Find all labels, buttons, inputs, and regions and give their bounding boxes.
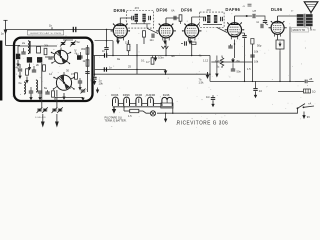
- svg-text:10k: 10k: [254, 50, 259, 54]
- bold arrow at jog: [206, 72, 210, 79]
- wire gang A to B: [45, 56, 54, 58]
- current arrow under V2: [163, 39, 167, 45]
- svg-text:+B: +B: [309, 77, 313, 81]
- cap 1ohm on feed: [206, 95, 215, 107]
- wire V5 anode to transformer: [278, 15, 297, 17]
- label 45 + caps: [243, 4, 252, 8]
- svg-text:DL96: DL96: [163, 93, 170, 97]
- wire V1 anode to IF1: [120, 18, 131, 24]
- trimmer T-dial2 below box: [52, 101, 63, 113]
- cap C-b1: [29, 87, 33, 101]
- current arrow 0,3: [154, 56, 164, 62]
- main bus: [95, 73, 211, 75]
- resistor above V2-V3: [179, 15, 182, 24]
- trimmer T-dial1 below box: [37, 101, 48, 113]
- svg-text:0,3m: 0,3m: [158, 56, 164, 60]
- current arrow at screen end: [164, 70, 168, 75]
- cap C-pad2: [32, 66, 36, 72]
- diode block D1: [16, 54, 20, 60]
- wire junction dots: [94, 55, 291, 114]
- screen line: [95, 69, 166, 71]
- cap C-col right: [85, 72, 89, 74]
- tube V3 DF96: [182, 17, 202, 40]
- resistor R-osc: [44, 44, 49, 55]
- svg-text:DK96: DK96: [114, 8, 126, 13]
- wire V4 down: [234, 40, 236, 59]
- B+ connector: [295, 77, 314, 83]
- note text PILOT: [105, 116, 127, 123]
- wire IF1 to V2: [147, 24, 158, 34]
- trimmer CT2: [70, 40, 80, 47]
- wire box right edge to grid line: [94, 56, 96, 75]
- wire pot down: [279, 49, 281, 81]
- resistor R-lamp: [124, 107, 150, 118]
- svg-text:20k: 20k: [44, 44, 49, 48]
- svg-text:10k: 10k: [99, 82, 104, 86]
- resistor R-extra2: [52, 91, 55, 97]
- output transformer T1: [297, 14, 313, 27]
- cap C-V4b: [228, 43, 235, 48]
- svg-text:11k: 11k: [125, 41, 130, 45]
- vertical to ground mid right: [215, 56, 218, 78]
- wire V2 down: [165, 41, 167, 56]
- svg-text:10k: 10k: [254, 60, 259, 64]
- cap 10 on B line: [253, 81, 262, 98]
- svg-text:1Ω: 1Ω: [206, 95, 209, 99]
- tube V1 DK96: [111, 23, 131, 40]
- svg-text:11n: 11n: [150, 38, 155, 42]
- tuner box GRUPPO AT S 2505: [14, 38, 93, 101]
- resistor R-col right 2: [83, 59, 89, 66]
- wire diode load: [211, 61, 252, 63]
- wire V1 down to bus: [112, 41, 114, 56]
- socket f2: [123, 93, 130, 106]
- coil L1: [22, 41, 30, 54]
- svg-text:0,47: 0,47: [73, 48, 77, 54]
- tube V4 DAF96: [225, 16, 245, 39]
- wire V4 anode right: [235, 16, 266, 20]
- cap above V2-V3: [174, 16, 176, 20]
- svg-text:DF96: DF96: [181, 7, 193, 12]
- coil L3: [19, 81, 26, 94]
- ground T-dial1: [41, 114, 45, 128]
- svg-text:9V: 9V: [307, 115, 310, 119]
- socket f1: [111, 93, 118, 106]
- cap on screen line: [104, 66, 112, 72]
- wire B+ transformer down right: [310, 27, 312, 30]
- resistor R-mid-box: [71, 72, 77, 79]
- label transformer: [292, 27, 317, 32]
- cap 10n under V3: [181, 41, 186, 45]
- wire transformer down: [289, 27, 291, 82]
- wire bottom inside 2: [56, 90, 58, 101]
- wire right column: [87, 45, 89, 92]
- wire trimmer link: [63, 39, 73, 41]
- capacitor C-ant: [73, 27, 76, 32]
- cap C-extra1: [45, 90, 49, 94]
- filament sockets row: [111, 93, 173, 114]
- svg-text:DF96: DF96: [135, 93, 142, 97]
- svg-text:DAF96: DAF96: [225, 7, 240, 12]
- svg-text:tA: tA: [257, 20, 260, 24]
- svg-text:1.12: 1.12: [203, 59, 209, 63]
- wire antenna top bus: [6, 29, 114, 31]
- resistor R-a: [37, 47, 41, 54]
- label 7b 1.5k: [199, 78, 205, 85]
- pot symbol W: [162, 46, 169, 49]
- label GRUPPO AT S 2505: [28, 30, 64, 35]
- cap on x252: [250, 55, 254, 57]
- wire bottom inside: [41, 63, 43, 101]
- bus jog down: [210, 56, 295, 82]
- scan page edge bar: [0, 41, 2, 101]
- current arrow 8A: [231, 58, 240, 63]
- filament links: [118, 103, 162, 105]
- socket f3: [135, 93, 142, 106]
- wire antenna into box: [6, 44, 21, 46]
- IF transformer 1: [127, 6, 154, 28]
- cap C-col right2: [76, 52, 83, 58]
- series cap on grid line: [102, 49, 107, 58]
- ground mid feed: [164, 113, 167, 122]
- svg-text:0.1: 0.1: [141, 59, 145, 63]
- ground arrow to frame: [81, 97, 84, 101]
- svg-text:472: 472: [135, 6, 140, 10]
- switch S1: [297, 101, 314, 109]
- battery B: [278, 89, 315, 94]
- wire osc row: [18, 45, 57, 47]
- battery A minus arrow: [302, 112, 310, 120]
- resistor R47k under V2: [146, 56, 154, 65]
- svg-text:472: 472: [207, 8, 212, 12]
- cathode arrow V1: [116, 38, 120, 44]
- cap 11n: [150, 34, 155, 43]
- svg-text:47k: 47k: [71, 72, 76, 76]
- wire D1: [17, 46, 19, 54]
- block right column: [77, 55, 81, 60]
- svg-text:4.7: 4.7: [146, 60, 150, 64]
- svg-text:8A: 8A: [237, 59, 240, 63]
- svg-text:TERM. E BATTER.: TERM. E BATTER.: [105, 118, 127, 122]
- filament feed wire: [157, 109, 298, 113]
- svg-text:50n: 50n: [237, 70, 242, 74]
- svg-text:1.5k: 1.5k: [199, 81, 205, 85]
- ground under bus: [96, 88, 99, 94]
- tube V2 DF96: [156, 18, 176, 40]
- ground T-dial2: [55, 114, 59, 128]
- svg-text:DAF96: DAF96: [146, 93, 155, 97]
- speaker LS: [304, 2, 318, 14]
- resistor R-pad: [25, 69, 28, 84]
- svg-text:+A: +A: [308, 101, 312, 105]
- grid line bus: [93, 55, 211, 57]
- wire IF2 to V4: [217, 28, 227, 33]
- labels 10k column: [254, 50, 259, 64]
- tube V5 DL96: [268, 16, 286, 37]
- cap C-osc: [48, 57, 52, 59]
- resistor R between V1 V2: [143, 31, 146, 44]
- svg-text:GRUPPO AT S 2505: GRUPPO AT S 2505: [30, 32, 63, 35]
- svg-text:DK96: DK96: [111, 93, 118, 97]
- cap C-pad: [16, 64, 23, 79]
- pilot lamp: [150, 111, 155, 116]
- wire osc ground run: [55, 97, 83, 101]
- svg-text:Eb: Eb: [172, 54, 176, 58]
- wire x252.5 down: [252, 44, 254, 81]
- socket f5: [161, 93, 173, 108]
- resistor R h under V3: [192, 42, 197, 45]
- coil L1 core: [29, 41, 31, 54]
- svg-text:6A: 6A: [171, 8, 174, 12]
- volume pot box: [276, 40, 284, 49]
- resistor R-extra4: [43, 65, 46, 71]
- resistor R 11k: [125, 40, 130, 56]
- cap C-extra3: [78, 78, 82, 91]
- svg-text:DL96: DL96: [271, 7, 283, 12]
- svg-text:MOD 5 TR: MOD 5 TR: [293, 28, 305, 32]
- cap C-b2: [38, 91, 42, 100]
- cap 50n mid right: [231, 63, 242, 73]
- svg-text:1.5: 1.5: [128, 114, 132, 118]
- wire V3 down: [191, 41, 193, 56]
- cap HT: [246, 9, 257, 18]
- resistor box right of V4: [251, 39, 254, 45]
- svg-text:50p: 50p: [257, 44, 262, 48]
- wire x137 down: [136, 44, 138, 74]
- filament bus wire: [113, 106, 174, 108]
- trimmer CT1: [60, 41, 66, 47]
- wire box to V1: [95, 40, 114, 42]
- wire V2 anode up: [166, 18, 180, 22]
- block L3: [37, 57, 42, 63]
- svg-text:1Ω: 1Ω: [312, 90, 315, 94]
- ground D1: [16, 60, 19, 67]
- cap C-L1: [21, 48, 25, 54]
- svg-text:DF96: DF96: [156, 7, 168, 12]
- current arrow under V3: [188, 39, 192, 45]
- resistor R-col right: [81, 47, 89, 54]
- trimmer C-corner: [81, 89, 86, 94]
- socket f4: [146, 93, 155, 106]
- antenna: [1, 20, 8, 45]
- svg-text:DF96: DF96: [123, 93, 130, 97]
- wire V5 down to pot: [277, 34, 279, 40]
- svg-text:S.CAL 4-20: S.CAL 4-20: [35, 116, 47, 119]
- tuning gang section A: [51, 48, 71, 65]
- tuning gang section B: [53, 72, 75, 90]
- ground L2: [28, 64, 31, 71]
- IF transformer 2: [200, 8, 224, 28]
- svg-text:1.5: 1.5: [247, 67, 251, 71]
- svg-text:HT: HT: [253, 9, 257, 13]
- ground gang B: [62, 93, 65, 100]
- svg-text:300: 300: [81, 47, 86, 51]
- coil L4: [36, 80, 38, 92]
- caps left of V5: [257, 20, 269, 28]
- node 1b: [49, 24, 52, 30]
- wire V3 anode to IF2: [192, 16, 206, 18]
- cap C-box-right to gnd: [92, 74, 103, 85]
- cap C9a: [104, 29, 120, 61]
- svg-text:RICEVITORE G 306: RICEVITORE G 306: [177, 121, 229, 127]
- zigzag resistor mid right: [215, 56, 224, 69]
- cap C-V4 down: [238, 33, 247, 81]
- filament ground arrow: [112, 107, 116, 114]
- wire socket5 to feed: [172, 108, 174, 113]
- block L2: [27, 57, 32, 63]
